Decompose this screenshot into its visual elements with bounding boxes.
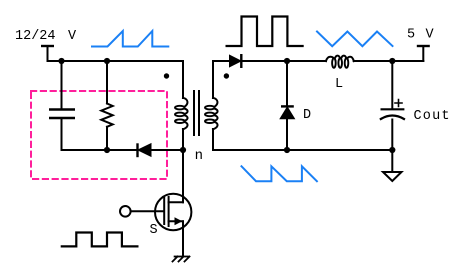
wire diode D top (286, 61, 288, 106)
svg-text:V: V (68, 29, 77, 44)
svg-text:D: D (303, 108, 311, 123)
transformer core (194, 91, 199, 135)
wire snubber bottom (62, 149, 184, 151)
wire source to ground (182, 221, 184, 256)
ground MOSFET (hatched) (173, 257, 190, 262)
transformer dot primary (164, 73, 169, 78)
freewheel current sawtooth (blue) (242, 166, 317, 181)
wire primary top rail (48, 60, 184, 62)
MOSFET gate terminal circle (120, 206, 131, 217)
capacitor C snubber (50, 61, 74, 150)
capacitor Cout (381, 109, 404, 119)
gate drive square wave (black) (62, 233, 138, 247)
wire node n to MOSFET drain (182, 150, 184, 202)
node n junction (180, 147, 186, 153)
node junction output (389, 58, 395, 64)
transformer secondary wire top (213, 61, 230, 98)
svg-text:n: n (195, 148, 203, 164)
node junction diode D bottom (284, 147, 290, 153)
transformer primary wire bottom (182, 129, 184, 150)
capacitor Cout plus sign (395, 100, 402, 107)
snubber box (pink dashed) (31, 91, 167, 179)
node junction cap-top (58, 58, 64, 64)
wire input drop (47, 46, 49, 61)
node junction secondary ground (389, 147, 395, 153)
node junction res-bottom (104, 147, 110, 153)
wire to ground triangle (391, 150, 393, 172)
ground secondary (open triangle) (383, 172, 402, 181)
diode rectifier (points right) (230, 55, 242, 67)
primary waveform sawtooth (blue) (92, 31, 168, 47)
svg-text:V: V (426, 27, 435, 42)
node junction res-top (104, 58, 110, 64)
MOSFET source link with arrow (169, 217, 183, 225)
input terminal (42, 45, 53, 47)
wire gate (132, 210, 164, 212)
label 5 V (407, 27, 435, 42)
wire diode D bottom (286, 119, 288, 150)
wire L to output node (354, 60, 424, 62)
transformer dot secondary (224, 73, 229, 78)
transformer secondary wire bottom (213, 129, 392, 150)
MOSFET gate bar (163, 198, 165, 224)
svg-text:L: L (335, 77, 343, 92)
inductor L (326, 56, 354, 68)
node junction diode D top (284, 58, 290, 64)
secondary voltage square wave (black) (227, 17, 303, 47)
MOSFET S body circle (155, 194, 191, 230)
inductor ripple triangle wave (blue) (317, 32, 393, 47)
MOSFET channel bar (168, 197, 170, 226)
svg-text:12/24: 12/24 (15, 29, 56, 44)
label 12/24 V (15, 29, 77, 44)
capacitor Cout wire bottom (391, 120, 393, 151)
diode D (points up) (280, 106, 294, 118)
transformer primary wire top (182, 61, 184, 98)
MOSFET drain link (169, 201, 183, 203)
wire output terminal drop (422, 46, 424, 61)
capacitor Cout wire top (391, 61, 393, 109)
output terminal 5V (418, 45, 429, 47)
svg-text:Cout: Cout (414, 109, 450, 124)
svg-text:S: S (150, 223, 158, 238)
wire secondary top rail (241, 60, 326, 62)
transformer primary winding (175, 98, 188, 130)
resistor R snubber (101, 61, 112, 150)
transformer secondary winding (205, 98, 218, 130)
svg-text:5: 5 (407, 27, 415, 42)
diode clamp (points left) (138, 144, 152, 157)
